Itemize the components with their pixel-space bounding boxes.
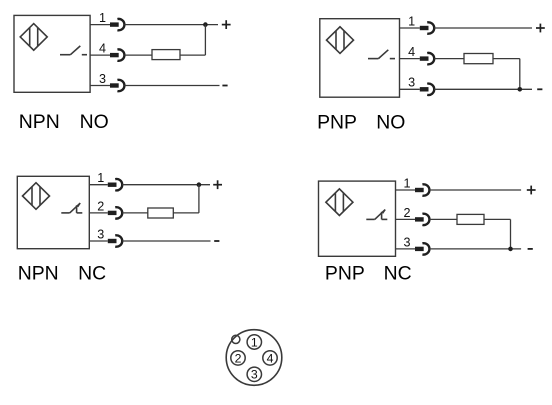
svg-text:PNP: PNP: [317, 111, 357, 133]
svg-text:1: 1: [99, 11, 106, 25]
svg-text:NPN: NPN: [19, 111, 60, 133]
svg-text:3: 3: [408, 76, 415, 90]
svg-text:3: 3: [403, 235, 410, 249]
svg-text:1: 1: [97, 171, 104, 185]
svg-text:1: 1: [251, 335, 258, 349]
svg-text:3: 3: [97, 227, 104, 241]
svg-text:NO: NO: [376, 111, 405, 133]
svg-text:NPN: NPN: [18, 263, 59, 285]
svg-text:4: 4: [408, 45, 415, 59]
svg-text:NC: NC: [384, 262, 412, 284]
svg-text:1: 1: [408, 14, 415, 28]
svg-text:NO: NO: [80, 111, 109, 133]
svg-text:4: 4: [99, 42, 106, 56]
svg-text:1: 1: [403, 176, 410, 190]
svg-text:NC: NC: [78, 263, 106, 285]
svg-text:2: 2: [97, 199, 104, 213]
svg-text:3: 3: [99, 72, 106, 86]
svg-text:2: 2: [403, 206, 410, 220]
svg-text:2: 2: [235, 351, 242, 365]
svg-text:PNP: PNP: [325, 262, 365, 284]
svg-text:3: 3: [251, 368, 258, 382]
svg-text:4: 4: [267, 351, 274, 365]
